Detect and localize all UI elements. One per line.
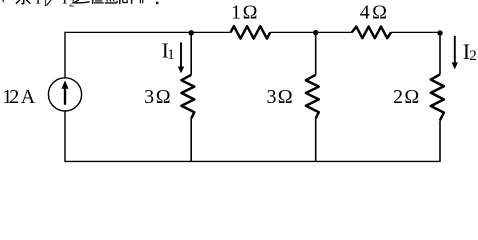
svg-text:3: 3 [144, 86, 154, 108]
svg-text:2: 2 [9, 86, 19, 108]
svg-text:4: 4 [360, 2, 370, 24]
svg-text:Ω: Ω [404, 86, 419, 108]
svg-text:1: 1 [167, 47, 175, 63]
svg-text:2: 2 [393, 86, 403, 108]
svg-text:3: 3 [267, 86, 277, 108]
svg-text:Ω: Ω [278, 86, 293, 108]
svg-text:2: 2 [69, 0, 75, 9]
svg-text:2: 2 [469, 48, 477, 64]
svg-text:I: I [35, 0, 41, 8]
svg-text:Ω: Ω [156, 86, 171, 108]
svg-text:I: I [62, 0, 68, 8]
svg-text:1: 1 [231, 2, 241, 24]
svg-text:Ω: Ω [243, 2, 258, 24]
svg-text:Ω: Ω [372, 2, 387, 24]
svg-text:A: A [21, 86, 36, 108]
